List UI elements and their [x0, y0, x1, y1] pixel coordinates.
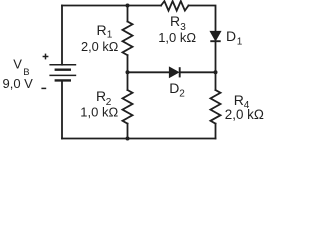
- diode D1: [210, 31, 220, 41]
- resistor R1: [123, 22, 133, 56]
- svg-text:2: 2: [179, 89, 185, 100]
- label D2: [169, 80, 185, 100]
- svg-text:V: V: [13, 57, 22, 72]
- label VB: [13, 57, 29, 79]
- wire top right segment and right corner: [189, 6, 216, 32]
- label R1: [97, 22, 113, 40]
- wire middle node to R2: [127, 72, 129, 90]
- wire top left segment: [62, 5, 161, 7]
- wire top node to R1: [127, 6, 129, 22]
- node junction bottom (R2 bottom): [126, 137, 130, 141]
- wire battery minus to bottom: [61, 80, 63, 138]
- wire bottom: [62, 138, 216, 140]
- node junction middle (R1/R2/D2): [126, 70, 130, 74]
- resistor R2: [123, 90, 133, 124]
- svg-text:R: R: [97, 22, 107, 38]
- battery plus sign: [43, 54, 49, 60]
- svg-text:2,0 kΩ: 2,0 kΩ: [81, 39, 119, 54]
- svg-text:1: 1: [237, 36, 243, 47]
- battery minus sign: [41, 87, 46, 89]
- wire R2 to bottom node: [127, 124, 129, 139]
- node junction right (D1/D2/R4): [214, 70, 218, 74]
- label R2: [96, 88, 112, 108]
- svg-text:1,0 kΩ: 1,0 kΩ: [80, 104, 118, 119]
- svg-text:D: D: [226, 28, 236, 44]
- svg-text:D: D: [169, 80, 179, 96]
- label R3: [170, 13, 186, 33]
- label D1: [226, 28, 243, 47]
- diode D2: [169, 67, 179, 77]
- wire battery plus to top: [61, 6, 63, 65]
- resistor R3: [161, 1, 189, 11]
- svg-text:1,0 kΩ: 1,0 kΩ: [158, 30, 196, 45]
- svg-text:9,0 V: 9,0 V: [3, 76, 34, 91]
- battery VB plates: [49, 65, 76, 81]
- svg-text:R: R: [170, 13, 180, 29]
- wire middle node to D2 anode: [128, 71, 170, 73]
- wire node to R4: [215, 72, 217, 90]
- wire R1 to middle node: [127, 55, 129, 72]
- wire D1 cathode to node: [215, 42, 217, 73]
- svg-text:R: R: [234, 92, 244, 108]
- resistor R4: [211, 90, 221, 124]
- svg-text:R: R: [96, 88, 106, 104]
- wire D2 cathode to right node: [180, 71, 216, 73]
- label R4: [234, 92, 250, 111]
- wire R4 to bottom: [215, 124, 217, 139]
- node junction top (R1 top): [126, 4, 130, 8]
- svg-text:2,0 kΩ: 2,0 kΩ: [225, 107, 264, 122]
